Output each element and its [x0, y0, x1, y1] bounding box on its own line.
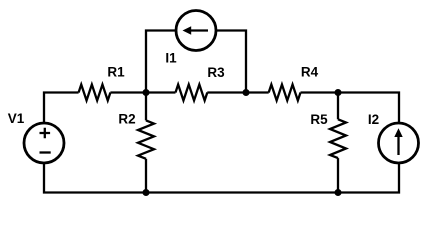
wire R2 branch bottom lead: [145, 159, 147, 193]
junction node B (R3/R4/top loop): [243, 89, 250, 96]
svg-text:I2: I2: [368, 112, 379, 127]
wire V1 bottom to bottom-left corner: [44, 163, 146, 193]
wire bottom bus right segment up to I2 bottom: [338, 163, 399, 193]
V1 minus sign: [40, 151, 51, 153]
resistor R4: [269, 85, 301, 101]
resistor R3: [176, 85, 208, 101]
wire I2 top to top-right corner of middle bus: [301, 93, 400, 124]
svg-text:R3: R3: [207, 65, 225, 80]
wire bottom bus middle segment: [146, 191, 338, 193]
svg-text:V1: V1: [8, 111, 25, 126]
current source I2 circle: [379, 123, 419, 163]
svg-text:R4: R4: [301, 65, 319, 80]
wire middle bus between R3 and R1: [110, 91, 175, 93]
wire top loop left side: node A up and right to I1: [146, 31, 176, 93]
I1 arrowhead: [183, 26, 192, 34]
wire left branch: middle bus corner down to V1 top: [44, 93, 79, 124]
I2 arrowhead: [394, 128, 402, 137]
svg-text:R5: R5: [310, 112, 328, 127]
wire middle bus between R4 and R3: [207, 91, 268, 93]
V1 plus sign: [40, 128, 51, 139]
junction bottom of R2: [143, 189, 150, 196]
resistor R1: [79, 85, 111, 101]
I1 arrow shaft: [188, 29, 208, 31]
wire R5 branch bottom lead: [337, 158, 339, 192]
wire R2 branch top lead: [145, 93, 147, 121]
resistor R5: [330, 119, 346, 158]
junction bottom of R5: [335, 189, 342, 196]
svg-text:R1: R1: [107, 65, 125, 80]
I2 arrow shaft: [397, 136, 399, 155]
wire top loop right side: I1 right down to node B: [216, 31, 246, 93]
junction node C (R4/R5/I2): [335, 89, 342, 96]
junction node A (R1/R2/R3/top loop): [143, 89, 150, 96]
svg-text:I1: I1: [165, 51, 177, 66]
voltage source V1 circle: [24, 123, 64, 163]
svg-text:R2: R2: [118, 112, 135, 127]
wire R5 branch top lead: [337, 93, 339, 120]
current source I1 circle: [176, 11, 216, 51]
resistor R2: [138, 120, 154, 158]
